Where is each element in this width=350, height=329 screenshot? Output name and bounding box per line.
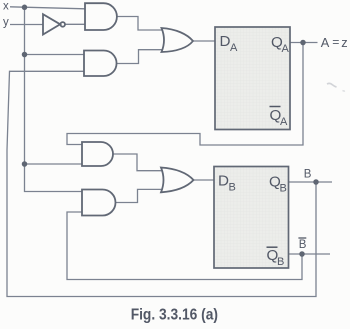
svg-text:B: B (304, 169, 312, 181)
svg-text:B: B (299, 239, 307, 251)
junction dot on QB-bar output node B-bar (299, 251, 305, 257)
wire: OR2 output to DB input (194, 179, 214, 181)
node label A = z (321, 35, 348, 50)
svg-text:D: D (218, 173, 229, 190)
wire: AND3 output to OR2 top input (114, 154, 163, 171)
AND gate A4 (x AND B') (82, 190, 116, 216)
junction dot on x at AND1 input (22, 5, 28, 11)
svg-text:A: A (282, 43, 290, 55)
AND gate A1 (x AND y') (85, 3, 117, 30)
D flip-flop A body (215, 27, 290, 130)
wire: x input to AND1 top input (10, 7, 85, 9)
wire: B feedback down, across bottom, up left side to AND2 bottom input (7, 71, 316, 296)
D flip-flop B body (214, 167, 289, 269)
wire: AND2 output to OR1 bottom input (117, 50, 163, 64)
pin label DB (218, 173, 236, 194)
svg-text:x: x (3, 0, 9, 12)
wire: AND4 output to OR2 bottom input (116, 189, 163, 202)
wire: QB output to B (289, 181, 333, 183)
pencil smudge artifact (327, 83, 337, 87)
junction dot on QA output node A (300, 40, 306, 46)
wire: QA feedback down and across to AND3 top input (67, 43, 303, 146)
junction dot on QB output node B (313, 179, 319, 185)
wire: x vertical bus down to AND4 top input (25, 7, 83, 191)
wire: y input to inverter (10, 24, 43, 26)
AND gate A2 (x AND B) (84, 51, 117, 77)
svg-text:Fig. 3.3.16 (a): Fig. 3.3.16 (a) (131, 307, 218, 324)
svg-text:y: y (3, 17, 9, 29)
svg-text:z: z (341, 35, 347, 50)
svg-text:A: A (280, 116, 288, 128)
pin label DA (220, 33, 239, 54)
junction dot on x bus at AND3 branch (22, 161, 28, 167)
wire: QB-bar output to B-bar (289, 253, 331, 255)
wire: QA output to A=z (290, 42, 318, 44)
svg-text:A: A (230, 42, 238, 54)
wire: x bus branch to AND2 top input (25, 54, 85, 56)
svg-text:B: B (229, 182, 236, 194)
pin label QB-bar with overline (267, 247, 285, 268)
pin label QB (269, 173, 287, 194)
svg-text:A: A (321, 35, 330, 50)
svg-text:B: B (280, 182, 287, 194)
OR gate O2 (drives DB) (161, 168, 194, 193)
OR gate O1 (drives DA) (162, 28, 194, 52)
AND gate A3 (A AND x) (82, 142, 113, 166)
wire: OR1 output to DA input (193, 40, 215, 42)
wire: B-bar feedback down, across, up to AND4 bottom input (67, 212, 302, 280)
node label B-bar with overline (298, 238, 306, 251)
svg-text:B: B (277, 256, 284, 268)
wire: inverter output to AND1 bottom input (66, 23, 86, 25)
pin label QA-bar with overline (270, 107, 289, 128)
svg-text:=: = (332, 35, 339, 49)
NOT gate (inverter) on y (43, 14, 60, 34)
svg-text:D: D (220, 33, 231, 50)
wire: AND1 output to OR1 top input (117, 17, 163, 31)
junction dot on x bus at AND2 branch (22, 52, 28, 58)
pin label QA (271, 34, 290, 55)
wire: x bus branch to AND3 bottom input (25, 163, 83, 165)
